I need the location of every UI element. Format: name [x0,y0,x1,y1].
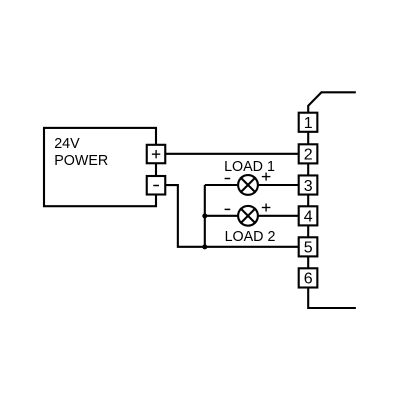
lamp LOAD 1 [238,175,258,195]
svg-text:6: 6 [304,271,313,288]
power supply PS1 box [44,128,156,206]
wire load1 right to terminal 3 [258,184,299,186]
wire terminal chain connector 1-2 [307,132,309,145]
polarity - sign at lamp LOAD 2 [225,208,231,210]
terminal 4 [299,206,318,225]
svg-text:4: 4 [304,209,313,226]
wire terminal chain connector 2-3 [307,163,309,175]
junction dot on load2 branch [202,213,207,218]
terminal 1 [299,113,318,132]
svg-text:LOAD 2: LOAD 2 [225,229,276,245]
wire terminal chain connector 5-6 [307,256,309,268]
svg-text:LOAD 1: LOAD 1 [224,159,275,175]
svg-text:24V: 24V [54,136,80,152]
wire - terminal down and along bottom to terminal 5 [165,185,298,247]
wire load2 left [205,215,239,217]
polarity + sign at lamp LOAD 2 [262,204,271,212]
wire top lead from terminal 1 [308,92,356,112]
terminal + of power supply [147,145,166,163]
svg-text:5: 5 [304,240,313,257]
svg-text:2: 2 [304,147,313,164]
wire terminal chain connector 3-4 [307,195,309,207]
terminal 6 [299,268,318,287]
wire load branch vertical bus [204,185,206,247]
plus sign in + terminal [152,150,160,158]
wire load2 right to terminal 4 [258,215,299,217]
terminal 3 [299,175,318,194]
lamp LOAD 2 [238,206,258,226]
svg-text:1: 1 [304,115,313,132]
terminal 5 [299,237,318,256]
minus sign in - terminal [153,185,159,187]
terminal 2 [299,144,318,163]
wire + terminal to terminal 2 [165,153,298,155]
polarity + sign at lamp LOAD 1 [262,173,271,181]
terminal - of power supply [147,176,166,195]
wire bottom lead from terminal 6 [308,288,356,309]
junction dot on bottom wire [202,244,207,249]
svg-text:POWER: POWER [54,153,108,169]
polarity - sign at lamp LOAD 1 [225,178,231,180]
wire terminal chain connector 4-5 [307,225,309,237]
svg-text:3: 3 [304,178,313,195]
wire load1 left [205,184,239,186]
